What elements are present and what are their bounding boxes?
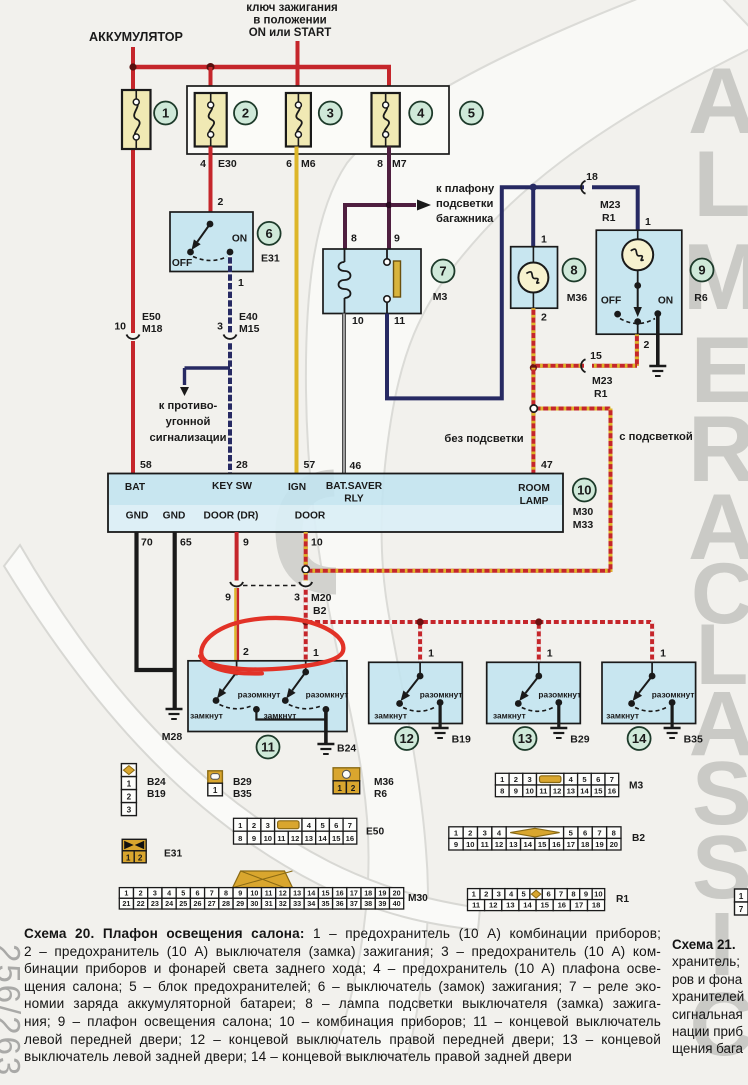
svg-text:6: 6 (196, 888, 200, 897)
wire pin10 striped to bus (304, 588, 308, 622)
svg-text:11: 11 (539, 787, 548, 796)
switch13 contact (493, 662, 581, 720)
wire switch12 to ground (439, 703, 442, 728)
svg-text:14: 14 (580, 787, 589, 796)
ignition switch U6 box (170, 212, 253, 272)
pin 1 switch13 (547, 648, 553, 660)
svg-text:5: 5 (181, 888, 185, 897)
svg-text:27: 27 (208, 899, 216, 908)
svg-text:11: 11 (261, 740, 275, 755)
svg-text:E31: E31 (261, 253, 280, 265)
svg-text:1: 1 (541, 234, 547, 246)
svg-text:8: 8 (238, 834, 242, 843)
svg-text:2: 2 (468, 828, 472, 837)
svg-text:KEY SW: KEY SW (212, 481, 252, 492)
svg-text:16: 16 (608, 787, 616, 796)
svg-text:3: 3 (497, 890, 501, 899)
svg-text:8: 8 (224, 888, 228, 897)
pin 1 lamp9 (645, 216, 651, 228)
fuse 2 (195, 93, 227, 147)
svg-text:M23: M23 (600, 199, 621, 211)
svg-text:ON: ON (658, 296, 673, 307)
svg-text:58: 58 (140, 459, 152, 471)
svg-text:8: 8 (500, 787, 504, 796)
svg-text:7: 7 (610, 775, 614, 784)
svg-text:13: 13 (509, 840, 517, 849)
svg-text:2: 2 (484, 890, 488, 899)
svg-text:17: 17 (567, 840, 575, 849)
wire lamp8 return striped (531, 308, 535, 369)
svg-text:3: 3 (483, 828, 487, 837)
svg-text:15: 15 (594, 787, 603, 796)
relay coil (339, 249, 351, 313)
pin 6 M6 (286, 158, 316, 170)
annotation red circle (200, 618, 343, 674)
caption scheme 20 (24, 925, 661, 1066)
svg-text:15: 15 (540, 901, 549, 910)
instrument cluster U10 box (108, 474, 563, 533)
page number sideways (0, 944, 27, 1077)
label R6 lamp (694, 292, 708, 304)
svg-text:1: 1 (739, 892, 744, 901)
wire lamp9 return striped (533, 334, 637, 365)
svg-text:2: 2 (541, 312, 547, 324)
connector view M3 (495, 773, 643, 796)
svg-text:4: 4 (200, 158, 206, 170)
svg-text:IGN: IGN (288, 482, 306, 493)
fuse 4 (372, 93, 400, 147)
svg-text:6: 6 (334, 821, 338, 830)
connector E40/M15 (217, 311, 259, 341)
svg-text:28: 28 (236, 459, 248, 471)
pin 2 switch11 (243, 646, 249, 658)
svg-text:сигнализации: сигнализации (150, 432, 227, 444)
svg-text:13: 13 (293, 888, 301, 897)
svg-text:13: 13 (567, 787, 575, 796)
svg-text:20: 20 (610, 840, 618, 849)
svg-text:B24: B24 (337, 743, 356, 755)
connector dashes M20/B2 (243, 585, 299, 587)
svg-text:M3: M3 (629, 781, 643, 792)
svg-text:M7: M7 (392, 158, 407, 170)
svg-text:8: 8 (571, 890, 575, 899)
svg-text:разомкнут: разомкнут (652, 690, 695, 700)
caption scheme 21 column (672, 936, 748, 1058)
wire with-illumination striped loop (306, 409, 611, 572)
label 4 (409, 102, 432, 125)
svg-text:11: 11 (265, 888, 273, 897)
connector pin9 M20/B2 (225, 581, 243, 604)
svg-text:23: 23 (151, 899, 159, 908)
label 8 (563, 259, 586, 282)
svg-text:M18: M18 (142, 323, 163, 335)
svg-text:3: 3 (327, 106, 334, 121)
svg-text:1: 1 (126, 853, 131, 862)
svg-text:B2: B2 (313, 605, 327, 617)
svg-text:GND: GND (163, 511, 186, 522)
svg-text:1: 1 (547, 648, 553, 660)
svg-text:18: 18 (592, 901, 600, 910)
connector view scheme21 partial (735, 889, 748, 915)
svg-text:20: 20 (393, 888, 401, 897)
svg-text:7: 7 (348, 821, 352, 830)
label 11 (257, 736, 280, 759)
svg-text:11: 11 (472, 901, 481, 910)
svg-text:E31: E31 (164, 849, 182, 860)
svg-text:8: 8 (351, 233, 357, 245)
connector pin10 M20/B2 (294, 573, 331, 617)
svg-text:18: 18 (581, 840, 589, 849)
connector view B24/B19 (121, 764, 166, 816)
relay pin labels 8 9 (351, 233, 400, 245)
svg-text:M33: M33 (573, 519, 594, 531)
svg-text:LAMP: LAMP (520, 496, 549, 507)
svg-text:R6: R6 (374, 789, 387, 800)
svg-text:14: 14 (318, 834, 327, 843)
ground B19 (432, 728, 471, 746)
svg-text:11: 11 (277, 834, 286, 843)
svg-text:ROOM: ROOM (518, 483, 550, 494)
svg-text:1: 1 (645, 216, 651, 228)
wire BAT.SAVER gray (342, 314, 346, 475)
background swoosh band right (306, 0, 748, 1055)
connector view R1 (468, 889, 630, 911)
connector view E50 (234, 818, 385, 844)
connector view M30 (119, 871, 428, 909)
pin 4 E30 (200, 158, 237, 170)
svg-text:R1: R1 (594, 388, 608, 400)
svg-text:BAT: BAT (125, 482, 146, 493)
ground lamp9 (649, 366, 666, 376)
relay U7 box (323, 249, 421, 314)
svg-text:M36: M36 (567, 292, 588, 304)
svg-text:E40: E40 (239, 311, 258, 323)
svg-text:2: 2 (351, 784, 356, 793)
ground B35 (664, 728, 703, 746)
label with illumination (619, 431, 693, 443)
block pin numbers top (140, 459, 553, 472)
wire GND65 black (173, 532, 177, 708)
wire GND70 black (137, 532, 175, 670)
svg-text:M20: M20 (311, 592, 332, 604)
svg-text:4: 4 (167, 888, 171, 897)
svg-text:29: 29 (236, 899, 244, 908)
door switch U13 box (487, 662, 581, 723)
switch11 left contact (190, 661, 280, 721)
svg-text:B2: B2 (632, 833, 645, 844)
wire fuse4 feed (387, 67, 391, 95)
svg-text:1: 1 (162, 106, 169, 121)
connector view B29/B35 (208, 771, 252, 800)
svg-text:2: 2 (127, 793, 132, 802)
svg-text:34: 34 (307, 899, 315, 908)
svg-text:10: 10 (114, 321, 126, 333)
svg-text:9: 9 (514, 787, 518, 796)
svg-text:замкнут: замкнут (190, 711, 223, 721)
svg-text:разомкнут: разомкнут (420, 690, 463, 700)
label M36 lamp (567, 292, 588, 304)
svg-text:13: 13 (305, 834, 313, 843)
svg-text:M30: M30 (408, 893, 428, 904)
svg-text:28: 28 (222, 899, 230, 908)
connector E50/M18 (114, 311, 162, 341)
svg-text:2: 2 (138, 853, 143, 862)
svg-text:13: 13 (518, 731, 532, 746)
svg-text:B35: B35 (684, 734, 703, 746)
svg-text:7: 7 (439, 264, 446, 279)
svg-text:B19: B19 (147, 789, 166, 800)
label 1 (154, 102, 177, 125)
svg-text:12: 12 (291, 834, 299, 843)
wire DOOR striped pin10 (304, 532, 308, 566)
svg-text:12: 12 (495, 840, 503, 849)
label without illumination (444, 433, 523, 445)
svg-text:без подсветки: без подсветки (444, 433, 523, 445)
svg-text:в положении: в положении (253, 15, 326, 27)
wire fuse2 to ignition switch (211, 147, 224, 213)
svg-text:M3: M3 (433, 291, 448, 303)
svg-text:25: 25 (179, 899, 187, 908)
svg-text:31: 31 (265, 899, 273, 908)
svg-text:47: 47 (541, 459, 553, 471)
wire DOOR-DR red pin9 (235, 532, 239, 581)
connector 15 M23/R1 (581, 350, 612, 400)
svg-text:1: 1 (313, 647, 319, 659)
svg-text:36: 36 (336, 899, 344, 908)
wire switch11 to ground (256, 709, 326, 743)
wire to alarm branch (180, 368, 230, 396)
svg-text:7: 7 (210, 888, 214, 897)
svg-text:9: 9 (243, 537, 249, 549)
svg-text:E30: E30 (218, 158, 237, 170)
connector 18 M23/R1 (581, 171, 620, 224)
svg-text:1: 1 (428, 648, 434, 660)
svg-text:10: 10 (311, 537, 323, 549)
lamp U9 bulb (622, 230, 653, 283)
room lamp U9 box (596, 230, 682, 334)
wire ROOM LAMP striped to pin47 (531, 368, 535, 474)
lamp U8 box (511, 247, 558, 309)
svg-text:10: 10 (250, 888, 258, 897)
fuse 1 (122, 90, 151, 149)
svg-text:18: 18 (364, 888, 372, 897)
svg-text:9: 9 (225, 592, 231, 604)
ignition key label (246, 2, 338, 39)
svg-text:E50: E50 (142, 311, 161, 323)
svg-text:14: 14 (523, 901, 532, 910)
svg-text:E50: E50 (366, 827, 384, 838)
svg-text:12: 12 (279, 888, 287, 897)
svg-text:15: 15 (332, 834, 341, 843)
svg-text:17: 17 (350, 888, 358, 897)
svg-text:7: 7 (597, 828, 601, 837)
pin 2 lamp8 (541, 312, 547, 324)
node trunk-light branch (386, 202, 392, 208)
svg-text:10: 10 (594, 890, 602, 899)
svg-text:65: 65 (180, 537, 192, 549)
label 14 (628, 727, 651, 750)
svg-text:2: 2 (644, 339, 650, 351)
wire relay out navy net (387, 187, 638, 398)
wire ignition key feed (296, 41, 300, 95)
wire lamp9 ON to ground (656, 314, 660, 365)
svg-text:11: 11 (394, 315, 405, 327)
svg-text:16: 16 (558, 901, 566, 910)
block labels row1 (125, 481, 550, 507)
node lamp8 tap (530, 184, 537, 191)
svg-text:B19: B19 (452, 734, 471, 746)
svg-text:24: 24 (165, 899, 173, 908)
svg-text:замкнут: замкнут (374, 711, 407, 721)
svg-text:26: 26 (194, 899, 202, 908)
svg-text:12: 12 (553, 787, 561, 796)
svg-text:14: 14 (307, 888, 315, 897)
svg-text:6: 6 (546, 890, 550, 899)
label 12 (395, 727, 418, 750)
svg-text:14: 14 (523, 840, 532, 849)
svg-text:9: 9 (394, 233, 400, 245)
svg-text:2: 2 (514, 775, 518, 784)
svg-text:B24: B24 (147, 777, 166, 788)
svg-text:B35: B35 (233, 789, 252, 800)
ignition switch contacts (172, 221, 247, 269)
switch11 right contact (264, 661, 349, 721)
svg-text:6: 6 (286, 158, 292, 170)
svg-text:OFF: OFF (601, 296, 621, 307)
wire to trunk light arrow (391, 200, 431, 211)
svg-text:12: 12 (489, 901, 497, 910)
svg-text:57: 57 (304, 459, 316, 471)
connector view E31 (122, 839, 182, 863)
wire bus to switch11 (302, 619, 309, 661)
svg-text:подсветки: подсветки (436, 198, 494, 210)
svg-text:6: 6 (265, 226, 272, 241)
pin 1 switch11 (313, 647, 319, 659)
connector view M36/R6 (333, 768, 394, 800)
door switch bus striped (306, 622, 652, 662)
svg-text:2: 2 (139, 888, 143, 897)
svg-text:3: 3 (266, 821, 270, 830)
svg-text:BAT.SAVER: BAT.SAVER (326, 481, 383, 492)
svg-text:9: 9 (698, 263, 705, 278)
svg-text:15: 15 (322, 888, 330, 897)
svg-text:3: 3 (217, 321, 223, 333)
node without-illumination split (530, 405, 537, 412)
svg-text:M30: M30 (573, 506, 594, 518)
label 13 (514, 727, 537, 750)
svg-text:1: 1 (337, 784, 342, 793)
wire switch13 to ground (557, 703, 560, 728)
svg-text:9: 9 (252, 834, 256, 843)
svg-text:39: 39 (378, 899, 386, 908)
svg-text:15: 15 (590, 350, 602, 362)
label 9 (691, 259, 714, 282)
svg-text:10: 10 (466, 840, 474, 849)
fuse 3 (286, 93, 311, 147)
svg-text:32: 32 (279, 899, 287, 908)
svg-text:АККУМУЛЯТОР: АККУМУЛЯТОР (89, 30, 183, 44)
svg-text:22: 22 (137, 899, 145, 908)
svg-text:9: 9 (454, 840, 458, 849)
svg-text:M15: M15 (239, 323, 260, 335)
svg-text:12: 12 (399, 731, 413, 746)
label M30 M33 (573, 506, 594, 531)
svg-text:18: 18 (586, 171, 598, 183)
svg-text:10: 10 (577, 483, 591, 498)
svg-text:10: 10 (264, 834, 272, 843)
svg-text:RLY: RLY (344, 494, 364, 505)
ground M28 (162, 709, 183, 743)
svg-text:ON или START: ON или START (249, 27, 332, 39)
svg-text:B29: B29 (233, 777, 252, 788)
svg-text:1: 1 (124, 888, 128, 897)
label 2 (234, 102, 257, 125)
svg-text:7: 7 (739, 905, 744, 914)
svg-text:R1: R1 (616, 894, 629, 905)
pin 1 lamp8 (541, 234, 547, 246)
background swoosh band lower-left (4, 545, 480, 930)
label to trunk light (436, 183, 495, 225)
wire fuse4 purple (343, 147, 391, 251)
svg-text:L: L (693, 131, 748, 236)
svg-text:5: 5 (468, 106, 475, 121)
svg-text:замкнут: замкнут (493, 711, 526, 721)
svg-text:GND: GND (126, 511, 149, 522)
wire fuse2 feed (209, 67, 213, 95)
svg-text:разомкнут: разомкнут (238, 690, 281, 700)
svg-text:9: 9 (238, 888, 242, 897)
svg-text:21: 21 (122, 899, 130, 908)
label 7 (432, 260, 455, 283)
label 10 (573, 479, 596, 502)
node fuse2 tap (129, 63, 214, 71)
svg-text:11: 11 (481, 840, 490, 849)
switch14 contact (606, 662, 694, 720)
svg-text:3: 3 (153, 888, 157, 897)
svg-text:9: 9 (584, 890, 588, 899)
svg-text:6: 6 (596, 775, 600, 784)
svg-text:DOOR (DR): DOOR (DR) (204, 511, 259, 522)
svg-text:разомкнут: разомкнут (538, 690, 581, 700)
ground B24 (317, 743, 356, 755)
svg-text:8: 8 (377, 158, 383, 170)
svg-text:1: 1 (238, 277, 244, 289)
node door split (302, 566, 309, 573)
svg-text:8: 8 (612, 828, 616, 837)
label 5 (460, 102, 483, 125)
svg-text:19: 19 (595, 840, 603, 849)
svg-text:35: 35 (322, 899, 330, 908)
svg-text:15: 15 (538, 840, 547, 849)
door switch U12 box (369, 662, 463, 723)
svg-text:37: 37 (350, 899, 358, 908)
pin 1 switch12 (428, 648, 434, 660)
svg-text:14: 14 (632, 731, 647, 746)
svg-text:с подсветкой: с подсветкой (619, 431, 693, 443)
svg-text:R6: R6 (694, 292, 708, 304)
svg-text:19: 19 (378, 888, 386, 897)
wire pin9 bicolor to switch11 (235, 588, 238, 662)
svg-text:B29: B29 (570, 734, 589, 746)
svg-text:M36: M36 (374, 777, 394, 788)
svg-text:2: 2 (218, 196, 224, 208)
svg-text:угонной: угонной (166, 416, 211, 428)
svg-text:M23: M23 (592, 375, 613, 387)
svg-text:багажника: багажника (436, 213, 494, 225)
label E31 switch (261, 253, 280, 265)
svg-text:3: 3 (527, 775, 531, 784)
label to alarm (150, 400, 227, 444)
